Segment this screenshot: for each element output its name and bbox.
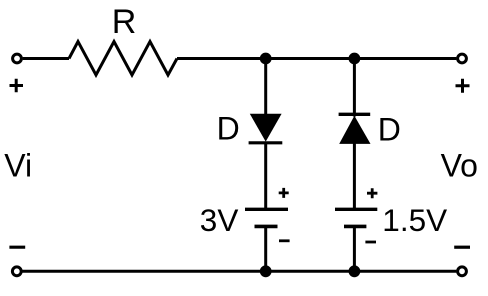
- wire battery B1 to bottom rail: [264, 226, 267, 271]
- svg-text:D: D: [217, 110, 240, 146]
- wire resistor to node A: [177, 57, 266, 60]
- label - (input negative): [9, 246, 25, 249]
- terminal output + (top-right): [458, 54, 467, 63]
- junction dot bottom right branch: [349, 265, 361, 277]
- bottom rail wire: [22, 270, 456, 273]
- wire D2 to battery B2: [353, 143, 356, 209]
- terminal input - (bottom-left): [12, 267, 21, 276]
- label - (output negative): [454, 246, 470, 249]
- svg-text:R: R: [112, 3, 137, 41]
- wire node B down to diode D2: [353, 59, 356, 117]
- label + (input positive): [10, 79, 24, 93]
- junction dot bottom left branch: [260, 265, 272, 277]
- svg-text:3V: 3V: [200, 202, 239, 238]
- label - (battery B2): [365, 241, 376, 244]
- diode D1 (cathode down): [250, 114, 282, 142]
- label + (battery B1): [279, 188, 289, 198]
- svg-text:1.5V: 1.5V: [382, 202, 447, 238]
- battery B2 1.5V positive plate: [335, 208, 377, 211]
- node A (junction dot): [260, 53, 272, 65]
- label + (output positive): [456, 79, 470, 93]
- wire node A down to diode D1: [264, 59, 267, 115]
- wire D1 to battery B1: [264, 143, 267, 210]
- svg-text:Vi: Vi: [4, 148, 32, 184]
- wire node A to node B: [266, 57, 355, 60]
- battery B1 3V positive plate: [245, 208, 288, 211]
- terminal input + (top-left): [13, 54, 22, 63]
- wire node B to output terminal: [354, 57, 456, 60]
- wire battery B2 to bottom rail: [353, 226, 356, 271]
- terminal output - (bottom-right): [458, 267, 467, 276]
- resistor R: [69, 42, 177, 76]
- label - (battery B1): [279, 239, 290, 242]
- battery B2 negative plate: [344, 225, 366, 229]
- svg-text:D: D: [378, 112, 401, 148]
- wire top-left to resistor: [23, 57, 69, 60]
- battery B1 negative plate: [255, 225, 278, 229]
- svg-text:Vo: Vo: [441, 148, 478, 184]
- diode D2 (cathode up): [339, 113, 371, 116]
- node B (junction dot): [349, 53, 361, 65]
- label + (battery B2): [367, 188, 377, 198]
